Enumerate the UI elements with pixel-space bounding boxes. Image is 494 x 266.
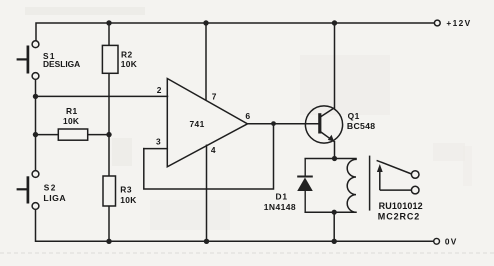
wire: R1 node down to R3 top — [108, 135, 110, 176]
svg-text:LIGA: LIGA — [43, 193, 66, 203]
node: output junction to feedback — [271, 121, 276, 126]
wire: top +12V rail — [36, 23, 434, 44]
transistor Q1 BC548 — [305, 106, 342, 143]
node A: S1/S2/pin2 junction — [33, 94, 38, 99]
svg-text:10K: 10K — [120, 195, 136, 205]
switch S1 DESLIGA — [17, 41, 39, 80]
svg-text:1N4148: 1N4148 — [264, 202, 296, 212]
resistor R2 — [102, 45, 118, 73]
svg-text:MC2RC2: MC2RC2 — [378, 211, 420, 221]
node: relay bottom junction — [332, 210, 337, 215]
svg-text:6: 6 — [245, 111, 250, 121]
svg-text:DESLIGA: DESLIGA — [43, 59, 80, 69]
relay contact terminal upper — [411, 171, 419, 179]
wire: bottom 0V rail — [36, 210, 434, 242]
svg-text:4: 4 — [211, 145, 216, 155]
node: R1 right / divider junction — [106, 132, 111, 137]
wire: R1 left lead — [36, 134, 59, 136]
svg-text:10K: 10K — [63, 116, 79, 126]
wire: relay top — [305, 158, 356, 160]
wire: R2 bottom down to R1 node (crossover at pin2 wire) — [108, 73, 110, 134]
svg-text:R2: R2 — [121, 50, 133, 60]
svg-text:3: 3 — [156, 137, 161, 147]
wire: R1 right lead — [88, 134, 109, 136]
wire: feedback from output node to pin 3 — [144, 124, 274, 189]
relay contact blade — [377, 160, 412, 174]
wire: emitter down to relay top — [334, 142, 336, 159]
wire: lower contact lead — [380, 189, 412, 191]
relay core bar — [369, 156, 371, 211]
wire: pin 7 up to +12V rail — [205, 23, 207, 100]
svg-text:RU101012: RU101012 — [379, 201, 423, 211]
node: 0V rail junction R3 — [106, 239, 111, 244]
node: top rail junction pin7 — [203, 20, 208, 25]
svg-text:Q1: Q1 — [348, 111, 360, 121]
node: relay top junction — [332, 156, 337, 161]
svg-text:10K: 10K — [121, 59, 137, 69]
wire: R3 bottom to 0V rail — [108, 206, 110, 241]
relay actuation arrow — [379, 168, 381, 191]
svg-text:R3: R3 — [120, 184, 132, 194]
resistor R1 — [58, 129, 87, 140]
svg-text:R1: R1 — [66, 106, 78, 116]
wire: pin2 horizontal from node A to op-amp — [36, 95, 168, 97]
svg-text:2: 2 — [157, 85, 162, 95]
resistor R3 — [103, 176, 116, 206]
wire: R2 top from rail — [108, 23, 110, 45]
node: top rail junction collector — [332, 20, 337, 25]
wire: relay bottom to 0V rail — [333, 212, 335, 241]
relay contact terminal lower — [411, 186, 419, 194]
op-amp U1 741 — [167, 79, 247, 167]
relay coil K1 — [347, 159, 356, 213]
node: R1 left junction — [33, 132, 38, 137]
svg-text:741: 741 — [190, 119, 205, 129]
wire: relay bottom — [305, 211, 356, 213]
svg-text:D1: D1 — [276, 192, 288, 202]
diode D1 1N4148 — [297, 159, 313, 213]
node: 0V rail junction pin4 — [204, 239, 209, 244]
switch S2 LIGA — [17, 171, 39, 210]
svg-text:0V: 0V — [445, 237, 458, 247]
wire: pin 4 down to 0V rail — [206, 145, 208, 241]
wire: S1 bottom to node A — [35, 80, 37, 135]
wire: op-amp output to transistor base — [248, 123, 320, 125]
wire: left column from R1 node down to S2 — [35, 135, 37, 171]
terminal +12V — [434, 20, 440, 26]
svg-text:+12V: +12V — [446, 18, 471, 28]
terminal 0V — [434, 238, 440, 244]
node: 0V rail junction relay — [332, 239, 337, 244]
node: top rail junction R2 — [106, 20, 111, 25]
svg-text:7: 7 — [212, 91, 217, 101]
wire: collector up to +12V rail — [334, 23, 336, 108]
svg-text:S2: S2 — [44, 183, 57, 193]
wire: pin 3 stub — [144, 148, 168, 150]
svg-text:BC548: BC548 — [347, 121, 376, 131]
